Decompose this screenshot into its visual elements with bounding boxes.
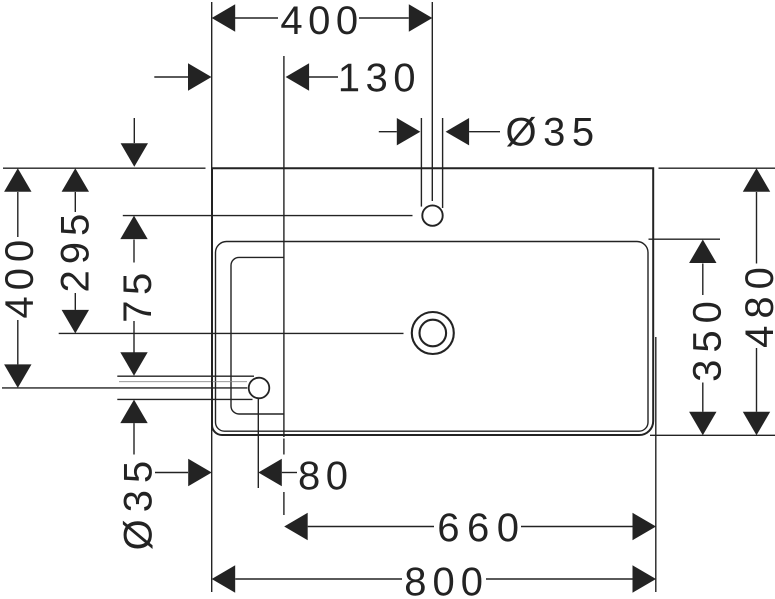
dim O35 left segment xyxy=(133,423,135,454)
label 130 xyxy=(341,63,414,91)
small hole center vertical line xyxy=(257,398,259,488)
dim 800 segments xyxy=(235,578,402,580)
arrow 350 down xyxy=(689,412,716,436)
label 660 xyxy=(439,513,517,541)
bowl top extension line right xyxy=(649,238,721,240)
left vertical extension line x=211.7 xyxy=(211,2,213,592)
top edge extension line right xyxy=(659,167,775,169)
dim 75 segments xyxy=(133,240,135,263)
arrow 75 up xyxy=(120,216,147,240)
arrow 295 down xyxy=(62,310,89,334)
arrow O35 left up (below bottom tangent) xyxy=(120,400,147,424)
bowl outline xyxy=(216,242,649,432)
arrow 350 up xyxy=(689,240,716,264)
130 extension line dash 2 xyxy=(283,492,285,515)
dim 80 segment right xyxy=(282,472,297,474)
arrow 130 pointing right at basin edge xyxy=(188,63,212,90)
label O35 left rotated xyxy=(123,462,153,549)
label 800 xyxy=(406,567,481,595)
dim 480 segments xyxy=(756,192,758,264)
arrow 800 left xyxy=(212,565,236,592)
label O35 top xyxy=(507,117,593,147)
small hole center horizontal line xyxy=(2,387,247,389)
arrow 400 left down xyxy=(4,364,31,388)
arrow 660 left xyxy=(284,513,308,540)
dim 400 left segments xyxy=(17,192,19,237)
small hole bottom tangent line xyxy=(117,398,252,400)
dim O35 top segment right xyxy=(469,131,500,133)
label 480 rotated xyxy=(745,269,773,347)
arrow 660 right xyxy=(633,513,657,540)
small hole upper faint reference line xyxy=(119,381,247,383)
130 extension line solid part xyxy=(283,56,285,437)
arrow 130 left xyxy=(286,63,310,90)
arrow 295 up xyxy=(62,168,89,192)
arrow 75 down xyxy=(120,352,147,376)
arrow 75 down onto top edge xyxy=(121,143,148,167)
basin outline xyxy=(212,168,653,435)
arrow 400 left up xyxy=(4,168,31,192)
right vertical extension line x=655.8 xyxy=(655,337,657,592)
label 80 xyxy=(300,461,347,489)
shelf line xyxy=(231,257,284,414)
drain inner circle xyxy=(420,320,447,347)
dim O35 top stub left xyxy=(379,131,397,133)
top edge extension line left xyxy=(3,167,206,169)
arrow 400 top right xyxy=(409,4,433,31)
dim 130 stub left of basin edge xyxy=(154,76,188,78)
dim 80 stub left xyxy=(155,472,188,474)
130 extension line dash 1 xyxy=(283,439,285,455)
label 400 left rotated xyxy=(5,241,33,317)
dim 350 segments xyxy=(702,264,704,296)
faucet center vertical line xyxy=(431,2,433,201)
arrow 80 pointing left xyxy=(258,459,282,486)
arrow 480 down xyxy=(743,412,770,436)
faucet right tangent vertical xyxy=(442,118,444,208)
arrow 480 up xyxy=(743,168,770,192)
arrow 400 top left xyxy=(212,4,236,31)
drain center horizontal line xyxy=(59,332,404,334)
label 75 rotated xyxy=(123,274,151,320)
dim 130 line segment xyxy=(309,76,338,78)
small hole top tangent line xyxy=(117,375,254,377)
faucet left tangent vertical xyxy=(420,118,422,207)
basin bottom extension line right xyxy=(650,434,775,436)
arrow O35 top pointing left xyxy=(446,118,470,145)
arrow 80 pointing right xyxy=(188,459,212,486)
label 295 rotated xyxy=(61,215,89,290)
small hole xyxy=(249,378,270,399)
label 350 rotated xyxy=(693,303,721,381)
dim 75 stub above top edge xyxy=(133,118,135,143)
faucet center horizontal line xyxy=(123,215,413,217)
label 400 top xyxy=(281,6,356,34)
arrow 800 right xyxy=(633,565,657,592)
drain outer circle xyxy=(412,312,454,354)
arrow O35 top pointing right xyxy=(397,118,421,145)
dim 400 top line segments xyxy=(235,17,278,19)
dim 295 segment xyxy=(74,192,76,212)
dim 660 segments xyxy=(308,526,434,528)
faucet hole xyxy=(422,205,442,225)
